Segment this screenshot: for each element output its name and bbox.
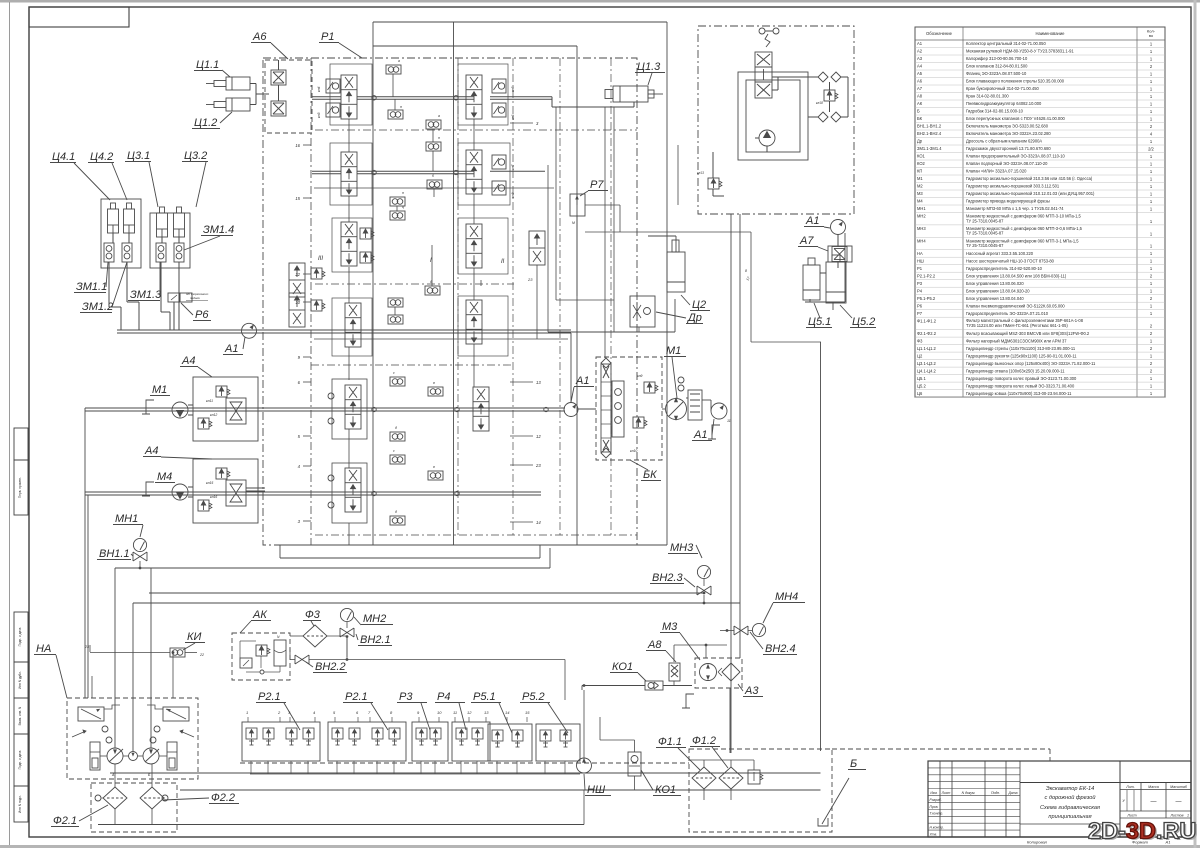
cylinder C1.2 (206, 98, 250, 111)
M3 block (695, 658, 742, 688)
svg-text:Ф3: Ф3 (917, 338, 923, 343)
svg-text:Ц4.1-Ц4.2: Ц4.1-Ц4.2 (917, 368, 937, 373)
svg-text:БК: БК (917, 116, 923, 121)
wire pair row1 (312, 96, 341, 98)
relief valves row3 pair (311, 268, 325, 279)
valve section row4 right (473, 387, 489, 431)
svg-text:Блок управления 13.80.04.920-2: Блок управления 13.80.04.920-20 (966, 288, 1030, 293)
svg-text:п: п (400, 105, 402, 109)
wires F3/MN2 (290, 635, 303, 637)
svg-text:Ц2: Ц2 (692, 299, 706, 311)
svg-text:кл11: кл11 (206, 399, 213, 403)
manifold bottom line (282, 544, 667, 546)
M1 swash unit (688, 390, 702, 420)
orifice (388, 315, 403, 324)
gauge MN4 (752, 623, 765, 636)
tank drain bracket (818, 818, 828, 826)
svg-text:ВН2.2: ВН2.2 (315, 661, 346, 673)
svg-text:А4: А4 (144, 445, 158, 457)
svg-text:д: д (430, 280, 432, 284)
svg-text:Р4: Р4 (437, 691, 450, 703)
svg-text:Р6: Р6 (917, 303, 923, 308)
svg-text:II: II (501, 259, 505, 265)
suction dashed line (240, 762, 689, 764)
svg-text:ВН1.1: ВН1.1 (99, 548, 130, 560)
cylinder C5.2 (826, 262, 846, 303)
svg-text:АК: АК (252, 609, 267, 621)
svg-text:Включатель манометра ЭО-3322А.: Включатель манометра ЭО-3322А.23.02.280 (966, 131, 1051, 136)
svg-text:КО1: КО1 (917, 154, 926, 159)
svg-text:НА: НА (917, 251, 923, 256)
wires F2 (114, 764, 116, 787)
hydraulic locks ZM1.3 ZM1.4 (156, 243, 166, 262)
svg-text:Ц4.1: Ц4.1 (52, 151, 75, 163)
steering block boundary (dash-dot) (698, 26, 854, 214)
suction line y824 (98, 824, 584, 826)
svg-text:М4: М4 (157, 471, 172, 483)
svg-text:А7: А7 (917, 86, 923, 91)
svg-text:ТУ 25-7310.0045-87: ТУ 25-7310.0045-87 (966, 231, 1004, 236)
svg-text:10: 10 (437, 710, 442, 715)
svg-text:14: 14 (505, 710, 510, 715)
svg-text:А6: А6 (917, 79, 923, 84)
svg-text:ВН2.4: ВН2.4 (765, 643, 796, 655)
junction circle A1 left (242, 323, 257, 338)
cylinder C5.1 (803, 265, 820, 300)
valve bank at x=488 (488, 724, 532, 761)
orifice (428, 471, 443, 480)
svg-text:Ц1.3: Ц1.3 (637, 61, 661, 73)
BK second column (612, 381, 624, 437)
svg-text:Р6: Р6 (195, 309, 209, 321)
svg-text:А1: А1 (917, 41, 923, 46)
svg-text:с дорожной фрезой: с дорожной фрезой (1045, 794, 1096, 801)
svg-text:15: 15 (295, 196, 300, 201)
valve section row1 right (466, 75, 482, 119)
wires steering block (772, 76, 818, 78)
svg-text:А1: А1 (224, 343, 238, 355)
main bus through A1 (117, 329, 571, 331)
outrigger cylinder group 1 (101, 199, 141, 268)
svg-text:НА: НА (36, 643, 51, 655)
svg-text:ТУ 25-7310.0045-87: ТУ 25-7310.0045-87 (966, 218, 1004, 223)
svg-text:Экскаватор ЕК-14: Экскаватор ЕК-14 (1046, 786, 1094, 792)
svg-text:12: 12 (467, 710, 472, 715)
gauge MN2 (340, 608, 353, 621)
svg-text:Ц4.2: Ц4.2 (90, 151, 113, 163)
svg-text:Р5.2: Р5.2 (522, 691, 545, 703)
valve VN2.4 (734, 626, 748, 635)
svg-text:ЗМ1.1: ЗМ1.1 (76, 281, 107, 293)
svg-text:кл18: кл18 (816, 101, 823, 105)
motor M1 circle (666, 399, 687, 420)
wire pair row2 (312, 170, 341, 172)
pump circle (759, 130, 775, 146)
svg-text:Др: Др (686, 312, 702, 324)
svg-text:М2: М2 (917, 184, 923, 189)
svg-text:10: 10 (295, 300, 300, 305)
orifice (425, 286, 440, 295)
svg-text:Р4: Р4 (917, 288, 923, 293)
motor M4 (172, 484, 188, 500)
svg-text:Перв. примен.: Перв. примен. (18, 477, 22, 498)
svg-text:МН4: МН4 (775, 591, 798, 603)
svg-text:НШ: НШ (587, 784, 606, 796)
svg-text:Ц6: Ц6 (917, 391, 923, 396)
svg-text:а: а (438, 114, 440, 118)
svg-text:Ц1.2: Ц1.2 (194, 117, 217, 129)
pump circle A1 right (711, 403, 727, 419)
svg-text:Ц1.1: Ц1.1 (196, 59, 219, 71)
svg-text:Клапан пневмогидравлический ЭО: Клапан пневмогидравлический ЭО-5122К.60.… (966, 303, 1065, 308)
svg-text:Гидроцилиндр поворота колес ле: Гидроцилиндр поворота колес левый ЭО-332… (966, 383, 1075, 388)
long verticals right (729, 688, 731, 753)
svg-text:МН3: МН3 (917, 226, 926, 231)
svg-text:Клапан подпорный ЭО-3323А.08.0: Клапан подпорный ЭО-3323А.08.07.110-20 (966, 161, 1048, 166)
svg-text:п: п (402, 191, 404, 195)
svg-text:—: — (1151, 799, 1157, 805)
svg-text:кл15: кл15 (206, 481, 213, 485)
pilot drain rails (314, 187, 554, 189)
central manifold inner rect (373, 45, 577, 47)
left margin stamp boxes (14, 428, 28, 460)
svg-text:Масса: Масса (1148, 785, 1159, 789)
filter in M3 (722, 663, 740, 681)
svg-text:22: 22 (294, 272, 300, 277)
nested rects (738, 72, 808, 160)
svg-text:А6: А6 (252, 31, 267, 43)
pilots row2 right (492, 155, 506, 169)
svg-text:КП: КП (917, 169, 922, 174)
svg-text:Подп.: Подп. (991, 791, 1000, 795)
svg-text:Инв N дубл.: Инв N дубл. (18, 671, 22, 689)
svg-text:Гидроцилиндр стрелы (110х70х11: Гидроцилиндр стрелы (110х70х1100) 313-80… (966, 346, 1076, 351)
svg-text:Обозначение: Обозначение (926, 31, 953, 36)
svg-text:Гидроцилиндр выносных опор (12: Гидроцилиндр выносных опор (125х80х400) … (966, 361, 1096, 366)
valve P7 (570, 194, 585, 216)
outrigger cylinder group 2 (150, 213, 190, 268)
svg-text:Ф3: Ф3 (305, 609, 321, 621)
svg-text:б: б (432, 174, 434, 178)
filters F1.1 F1.2 (692, 767, 716, 789)
svg-text:13: 13 (536, 380, 541, 385)
svg-text:1: 1 (246, 710, 248, 715)
valve section row1 left (341, 75, 357, 119)
svg-text:кл3: кл3 (317, 112, 321, 118)
svg-text:А1: А1 (805, 215, 819, 227)
svg-text:Ц3.2: Ц3.2 (184, 150, 207, 162)
svg-text:Кран буксировочный 314-02-71.0: Кран буксировочный 314-02-71.00.450 (966, 86, 1039, 91)
svg-text:А3: А3 (744, 685, 759, 697)
svg-text:БК: БК (643, 469, 657, 481)
NSh pump (577, 758, 592, 773)
svg-text:А5: А5 (917, 71, 923, 76)
svg-text:ВН2.3: ВН2.3 (652, 572, 683, 584)
svg-text:N докум.: N докум. (962, 791, 976, 795)
filter F2.2 (140, 787, 164, 809)
svg-text:ВН2.1: ВН2.1 (360, 634, 391, 646)
svg-text:Блок перепускных клапанов с ПО: Блок перепускных клапанов с ПОУ V4628.41… (966, 116, 1065, 121)
BK reliefs (644, 382, 658, 393)
svg-text:А2: А2 (917, 49, 923, 54)
valve section row2 left (341, 152, 357, 196)
svg-text:Ф1.1-Ф1.2: Ф1.1-Ф1.2 (917, 318, 937, 323)
junction A1 center (564, 403, 578, 417)
svg-text:ТУ 25-7310.0045-87: ТУ 25-7310.0045-87 (966, 243, 1004, 248)
svg-text:КО1: КО1 (612, 661, 633, 673)
svg-text:15: 15 (525, 710, 530, 715)
svg-text:Блок управления 13.80.06.020: Блок управления 13.80.06.020 (966, 281, 1024, 286)
svg-text:М: М (572, 221, 575, 225)
svg-text:Подп. и дата: Подп. и дата (18, 750, 22, 769)
svg-text:Р7: Р7 (917, 311, 923, 316)
NA plunger cylinders (90, 742, 100, 770)
wires down from steering block (730, 214, 732, 753)
NA relief arrows (72, 730, 86, 737)
svg-text:п: п (438, 136, 440, 140)
valve bank at x=452 (452, 722, 490, 761)
svg-text:Др: Др (917, 139, 923, 144)
top-left stamp box (29, 7, 129, 27)
inter-valve wire stubs (348, 119, 350, 152)
svg-text:ЗМ1.3: ЗМ1.3 (130, 289, 162, 301)
relief by filters (748, 770, 760, 784)
AK block (232, 633, 290, 680)
svg-text:МН2: МН2 (363, 613, 386, 625)
valve section row2 right (466, 150, 482, 194)
svg-text:М1: М1 (666, 345, 681, 357)
svg-text:14: 14 (536, 520, 541, 525)
svg-text:кл5: кл5 (511, 86, 515, 92)
svg-text:М3: М3 (917, 191, 923, 196)
svg-text:М3: М3 (662, 621, 678, 633)
svg-text:Гидроцилиндр рукояти (125х90х1: Гидроцилиндр рукояти (125х90х1100) 125-9… (966, 353, 1077, 358)
pilots row1 right (492, 79, 506, 93)
svg-text:М4: М4 (917, 199, 923, 204)
orifice (390, 377, 405, 386)
double bus rows 4/5 (85, 407, 565, 409)
title block (928, 761, 1191, 837)
svg-text:педали: педали (190, 296, 200, 300)
svg-text:У: У (1122, 798, 1125, 803)
wires C2/Dr (547, 165, 549, 332)
svg-text:2/2: 2/2 (1148, 147, 1154, 152)
svg-text:Гидроцилиндр отвала (100х63х25: Гидроцилиндр отвала (100х63х250) 15.20.0… (966, 368, 1065, 373)
wires NA top (91, 676, 93, 698)
svg-text:Блок управления 13.80.04.500 и: Блок управления 13.80.04.500 или 108 ВБМ… (966, 273, 1067, 278)
svg-text:Схема гидравлическая: Схема гидравлическая (1040, 805, 1100, 811)
left drop x115 (114, 568, 116, 748)
filter F2.1 (103, 787, 127, 809)
gauge MN1 (133, 538, 146, 551)
svg-text:МН1: МН1 (917, 206, 926, 211)
svg-text:кл9: кл9 (637, 374, 643, 378)
orifice (427, 180, 442, 189)
wire to C1.3 (551, 97, 553, 107)
orifice (390, 432, 405, 441)
svg-text:Клапан «ИЛИ» 3323А.07.15.020: Клапан «ИЛИ» 3323А.07.15.020 (966, 169, 1027, 174)
svg-text:в: в (433, 381, 435, 385)
motor M1 (172, 402, 188, 418)
svg-text:13: 13 (484, 710, 489, 715)
svg-text:Блок управления 13.80.04.040: Блок управления 13.80.04.040 (966, 296, 1024, 301)
svg-text:кл8: кл8 (511, 192, 515, 198)
valve section row4 left (332, 379, 367, 439)
svg-text:Р5.1-Р5.2: Р5.1-Р5.2 (917, 296, 936, 301)
orifice (390, 211, 405, 220)
valve section row5 left (332, 463, 367, 523)
svg-text:Блок клапанов 312-84-80.01.500: Блок клапанов 312-84-80.01.500 (966, 64, 1028, 69)
svg-text:Насосный агрегат 333.3.55.100.: Насосный агрегат 333.3.55.100.220 (966, 251, 1034, 256)
bus y568 (115, 567, 550, 569)
valve bank at x=242 (242, 722, 320, 761)
svg-text:Гидрозамок двухсторонний 13.71: Гидрозамок двухсторонний 13.71.80.670.68… (966, 146, 1051, 151)
pilot row1 left (326, 79, 340, 93)
svg-text:22: 22 (199, 653, 204, 657)
throttle Dr (630, 296, 655, 327)
svg-text:а: а (398, 59, 400, 63)
svg-text:НШ: НШ (917, 258, 924, 263)
bus y603 (133, 602, 740, 604)
svg-text:А4: А4 (917, 64, 923, 69)
bus y558 (280, 557, 540, 559)
svg-text:А4: А4 (181, 355, 195, 367)
svg-text:Механизм рулевой НДМ-80-У250-8: Механизм рулевой НДМ-80-У250-8-У ТУ23.37… (966, 49, 1074, 54)
svg-text:Утв.: Утв. (930, 832, 938, 836)
svg-text:Ц3.1: Ц3.1 (127, 150, 150, 162)
orifice (426, 120, 441, 129)
svg-text:Инв N подл.: Инв N подл. (18, 795, 22, 813)
svg-text:Р1: Р1 (321, 31, 334, 43)
steering valve A2 (755, 52, 772, 98)
svg-text:ВН1.1-ВН1.2: ВН1.1-ВН1.2 (917, 124, 942, 129)
svg-text:12: 12 (536, 434, 541, 439)
valve bank at x=328 (328, 722, 406, 761)
svg-text:—: — (1176, 799, 1182, 805)
svg-text:Р2.1-Р2.2: Р2.1-Р2.2 (917, 273, 936, 278)
svg-text:МН3: МН3 (670, 542, 694, 554)
svg-text:А1: А1 (693, 429, 707, 441)
svg-text:23: 23 (535, 463, 541, 468)
svg-text:Манометр МП3-60 МПа х 1,5 чер.: Манометр МП3-60 МПа х 1,5 чер. 1 ТУ25.02… (966, 206, 1064, 211)
tank B boundary (689, 749, 832, 832)
svg-text:Гидромотор привода моделирующе: Гидромотор привода моделирующей фрезы (966, 199, 1050, 204)
svg-text:кл13: кл13 (697, 171, 704, 175)
svg-text:принципиальная: принципиальная (1048, 814, 1091, 820)
block A4 lower (193, 459, 258, 523)
bus y593 (149, 592, 704, 594)
svg-text:Гидрораспределитель ЭО-3323А.0: Гидрораспределитель ЭО-3323А.07.21.010 (966, 311, 1049, 316)
svg-text:Взам. инв. N: Взам. инв. N (18, 706, 22, 725)
svg-text:д: д (395, 510, 397, 514)
svg-text:Ф2.1: Ф2.1 (53, 815, 77, 827)
svg-text:Ц5.1: Ц5.1 (917, 376, 926, 381)
svg-text:КИ: КИ (187, 631, 201, 643)
hydraulic locks ZM1.1 ZM1.2 (104, 243, 114, 262)
svg-text:КО1: КО1 (655, 784, 676, 796)
svg-text:МН1: МН1 (115, 513, 138, 525)
filter F3 (303, 625, 327, 647)
svg-text:кл10: кл10 (630, 449, 637, 453)
wires filters (690, 759, 754, 761)
valve R6 (168, 293, 180, 302)
svg-text:А8: А8 (917, 94, 923, 99)
svg-text:Гидроцилиндр поворота колес пр: Гидроцилиндр поворота колес правый ЭО-31… (966, 376, 1077, 381)
svg-text:Б: Б (917, 109, 920, 114)
svg-text:кл16: кл16 (210, 495, 217, 499)
parts list table (915, 27, 1165, 397)
svg-text:с: с (393, 449, 395, 453)
orifice (390, 197, 405, 206)
wires M3 (673, 645, 675, 662)
svg-text:ТУ35 11224.00 или ПМиН-ГС-661: ТУ35 11224.00 или ПМиН-ГС-661 (Реготмас … (966, 323, 1068, 328)
svg-text:Р3: Р3 (399, 691, 413, 703)
svg-text:А3: А3 (917, 56, 923, 61)
svg-text:Пневмогидроаккумулятор 64082.1: Пневмогидроаккумулятор 64082.10.000 (966, 101, 1042, 106)
svg-text:8: 8 (745, 269, 747, 273)
wires C1.3 ports down to BK (604, 107, 606, 358)
valve bank at x=536 (536, 724, 580, 761)
NA internal pilot valves (78, 707, 104, 721)
orifice (388, 298, 403, 307)
svg-text:ВН2.1-ВН2.4: ВН2.1-ВН2.4 (917, 131, 942, 136)
svg-text:2D-3D.RU: 2D-3D.RU (1088, 818, 1196, 844)
page scan edges (0, 0, 1200, 3)
svg-text:д: д (395, 426, 397, 430)
svg-text:в: в (433, 465, 435, 469)
MN3 gauge (697, 565, 710, 578)
steering wheel (759, 28, 765, 34)
svg-text:Фильтр всасывающий MSZ-303 ВМС: Фильтр всасывающий MSZ-303 ВМСVВ или SF8… (966, 331, 1090, 336)
block A6 (float block) (265, 60, 312, 133)
valve row3 left lower (345, 303, 361, 347)
svg-text:кл7: кл7 (511, 164, 515, 170)
check diamonds (818, 72, 828, 82)
svg-text:Ц5.2: Ц5.2 (852, 316, 875, 328)
svg-text:Гидроцилиндр ковша (110х70х900: Гидроцилиндр ковша (110х70х900) 313-00-2… (966, 391, 1072, 396)
svg-text:Подп. и дата: Подп. и дата (18, 627, 22, 646)
junction A1 top right (831, 220, 846, 235)
svg-text:Б: Б (850, 758, 857, 770)
svg-text:Лит.: Лит. (1125, 785, 1134, 789)
watermark 2D-3D.RU (1088, 818, 1198, 846)
central manifold outer rect (373, 21, 667, 23)
wire A1 to BK (578, 408, 596, 410)
valve row3 right lower (466, 300, 482, 344)
svg-text:Ц2: Ц2 (917, 353, 923, 358)
P1 internal dividers (457, 58, 459, 535)
svg-text:А1: А1 (575, 375, 589, 387)
svg-text:Изм.: Изм. (930, 791, 937, 795)
svg-text:Гидромотор аксиально-поршневой: Гидромотор аксиально-поршневой 303.3.112… (966, 184, 1060, 189)
valve bank at x=412 (412, 722, 448, 761)
tank rail x821 (820, 342, 822, 751)
wire cylinders to A6 (250, 83, 256, 85)
svg-text:Ф2.2: Ф2.2 (211, 792, 235, 804)
svg-text:А: А (111, 773, 115, 777)
svg-text:Р1: Р1 (917, 266, 923, 271)
relief valve right (824, 90, 838, 101)
svg-text:Насос шестеренчатый НШ-10-3 ГО: Насос шестеренчатый НШ-10-3 ГОСТ 8753-80 (966, 258, 1055, 263)
F2 filters box (91, 783, 177, 832)
svg-text:МН4: МН4 (917, 239, 926, 244)
valve VN2.1 (340, 628, 354, 637)
orifice (390, 455, 405, 464)
cylinder C2 (667, 252, 685, 292)
svg-text:Гидромотор аксиально-поршневой: Гидромотор аксиально-поршневой 310.12.01… (966, 191, 1095, 196)
NA pumps (107, 748, 123, 764)
svg-text:Р3: Р3 (917, 281, 923, 286)
